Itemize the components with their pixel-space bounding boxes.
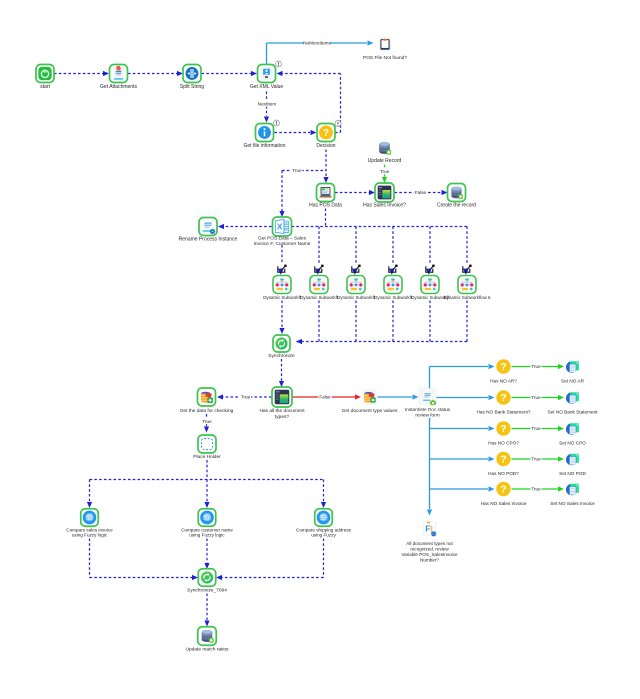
svg-text:Set NO Sales Invoice: Set NO Sales Invoice bbox=[550, 501, 595, 506]
svg-text:NoMoreItems: NoMoreItems bbox=[303, 41, 331, 46]
svg-text:Set NO Bank Statement: Set NO Bank Statement bbox=[547, 410, 598, 415]
svg-text:Place Holder: Place Holder bbox=[193, 454, 221, 460]
svg-text:Dynamic Subworkfl: Dynamic Subworkfl bbox=[337, 295, 375, 300]
svg-text:using Fuzzy logic: using Fuzzy logic bbox=[189, 533, 225, 538]
svg-text:True: True bbox=[531, 487, 541, 492]
svg-text:Has NO Sales Invoice: Has NO Sales Invoice bbox=[481, 501, 527, 506]
svg-text:Variable POS_SalesInvoice: Variable POS_SalesInvoice bbox=[401, 552, 458, 557]
svg-text:Has POS Data: Has POS Data bbox=[309, 203, 342, 209]
svg-text:All document types not: All document types not bbox=[406, 541, 453, 546]
svg-text:Update Record: Update Record bbox=[368, 158, 402, 164]
svg-text:using Fuzzy: using Fuzzy bbox=[311, 533, 336, 538]
svg-text:Create the record: Create the record bbox=[437, 203, 476, 209]
svg-text:using Fuzzy logic: using Fuzzy logic bbox=[72, 533, 108, 538]
svg-text:start: start bbox=[40, 84, 50, 90]
svg-text:Invoice #, Customer Name: Invoice #, Customer Name bbox=[254, 241, 311, 247]
svg-text:Compare sales invoice: Compare sales invoice bbox=[66, 527, 113, 532]
svg-text:Set NO AR: Set NO AR bbox=[561, 379, 585, 384]
svg-text:Get the data for checking: Get the data for checking bbox=[180, 408, 234, 414]
svg-text:Set NO POD: Set NO POD bbox=[559, 471, 586, 476]
svg-text:Rename Process Instance: Rename Process Instance bbox=[179, 237, 238, 243]
svg-text:Get XML Value: Get XML Value bbox=[250, 84, 284, 90]
svg-text:False: False bbox=[319, 395, 331, 400]
svg-text:True: True bbox=[531, 364, 541, 369]
svg-text:Has Sales Invoice?: Has Sales Invoice? bbox=[363, 203, 406, 209]
svg-text:Has NO POD?: Has NO POD? bbox=[488, 471, 519, 476]
svg-text:recognized, review: recognized, review bbox=[410, 547, 449, 552]
svg-text:Get document type values: Get document type values bbox=[342, 408, 398, 414]
svg-text:Synchronize_7094: Synchronize_7094 bbox=[187, 588, 227, 594]
svg-text:Decision: Decision bbox=[316, 143, 335, 149]
svg-text:Number?: Number? bbox=[420, 558, 439, 563]
svg-text:Has NO Bank Statement?: Has NO Bank Statement? bbox=[477, 410, 531, 415]
svg-text:Dynamic Subworkfl: Dynamic Subworkfl bbox=[263, 295, 301, 300]
svg-text:Has NO AR?: Has NO AR? bbox=[490, 379, 517, 384]
svg-text:review form: review form bbox=[415, 412, 439, 417]
svg-text:Compare shipping address: Compare shipping address bbox=[296, 527, 352, 532]
svg-text:NextItem: NextItem bbox=[258, 102, 277, 107]
svg-text:types?: types? bbox=[275, 414, 289, 420]
svg-text:True: True bbox=[292, 168, 302, 173]
svg-text:True: True bbox=[202, 419, 212, 424]
svg-text:Get file information: Get file information bbox=[244, 143, 286, 149]
svg-text:Dynamic Subworkfl: Dynamic Subworkfl bbox=[300, 295, 338, 300]
svg-text:True: True bbox=[531, 426, 541, 431]
svg-text:Has all the document: Has all the document bbox=[259, 408, 305, 414]
svg-text:Has NO CPO?: Has NO CPO? bbox=[488, 441, 519, 446]
svg-text:POS File Not found?: POS File Not found? bbox=[363, 55, 407, 61]
svg-text:Dynamic Subworkfl: Dynamic Subworkfl bbox=[374, 295, 412, 300]
svg-text:Set NO CPO: Set NO CPO bbox=[559, 441, 586, 446]
svg-text:True: True bbox=[531, 457, 541, 462]
svg-text:Synchronize: Synchronize bbox=[268, 353, 295, 359]
svg-text:Compare customer name: Compare customer name bbox=[181, 527, 233, 532]
svg-text:True: True bbox=[531, 395, 541, 400]
svg-text:True: True bbox=[241, 395, 251, 400]
svg-text:Dynamic Subworkflow 6: Dynamic Subworkflow 6 bbox=[444, 295, 491, 300]
svg-text:Update match ratios: Update match ratios bbox=[186, 647, 230, 653]
svg-text:Get POS Data – Sales: Get POS Data – Sales bbox=[258, 235, 307, 241]
svg-text:True: True bbox=[380, 169, 390, 174]
svg-text:Get Attachments: Get Attachments bbox=[100, 84, 137, 90]
svg-text:Split String: Split String bbox=[180, 84, 204, 90]
svg-text:False: False bbox=[415, 190, 427, 195]
